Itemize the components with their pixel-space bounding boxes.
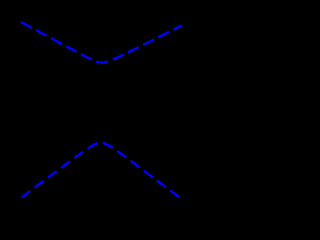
dashed hyperbola branch, bottom (opens downward, rounded vertex near x=100.7,y=142.6) xyxy=(22,143,180,198)
dashed hyperbola branch, top (opens upward, rounded vertex near x=102,y=62.6) xyxy=(21,22,182,63)
